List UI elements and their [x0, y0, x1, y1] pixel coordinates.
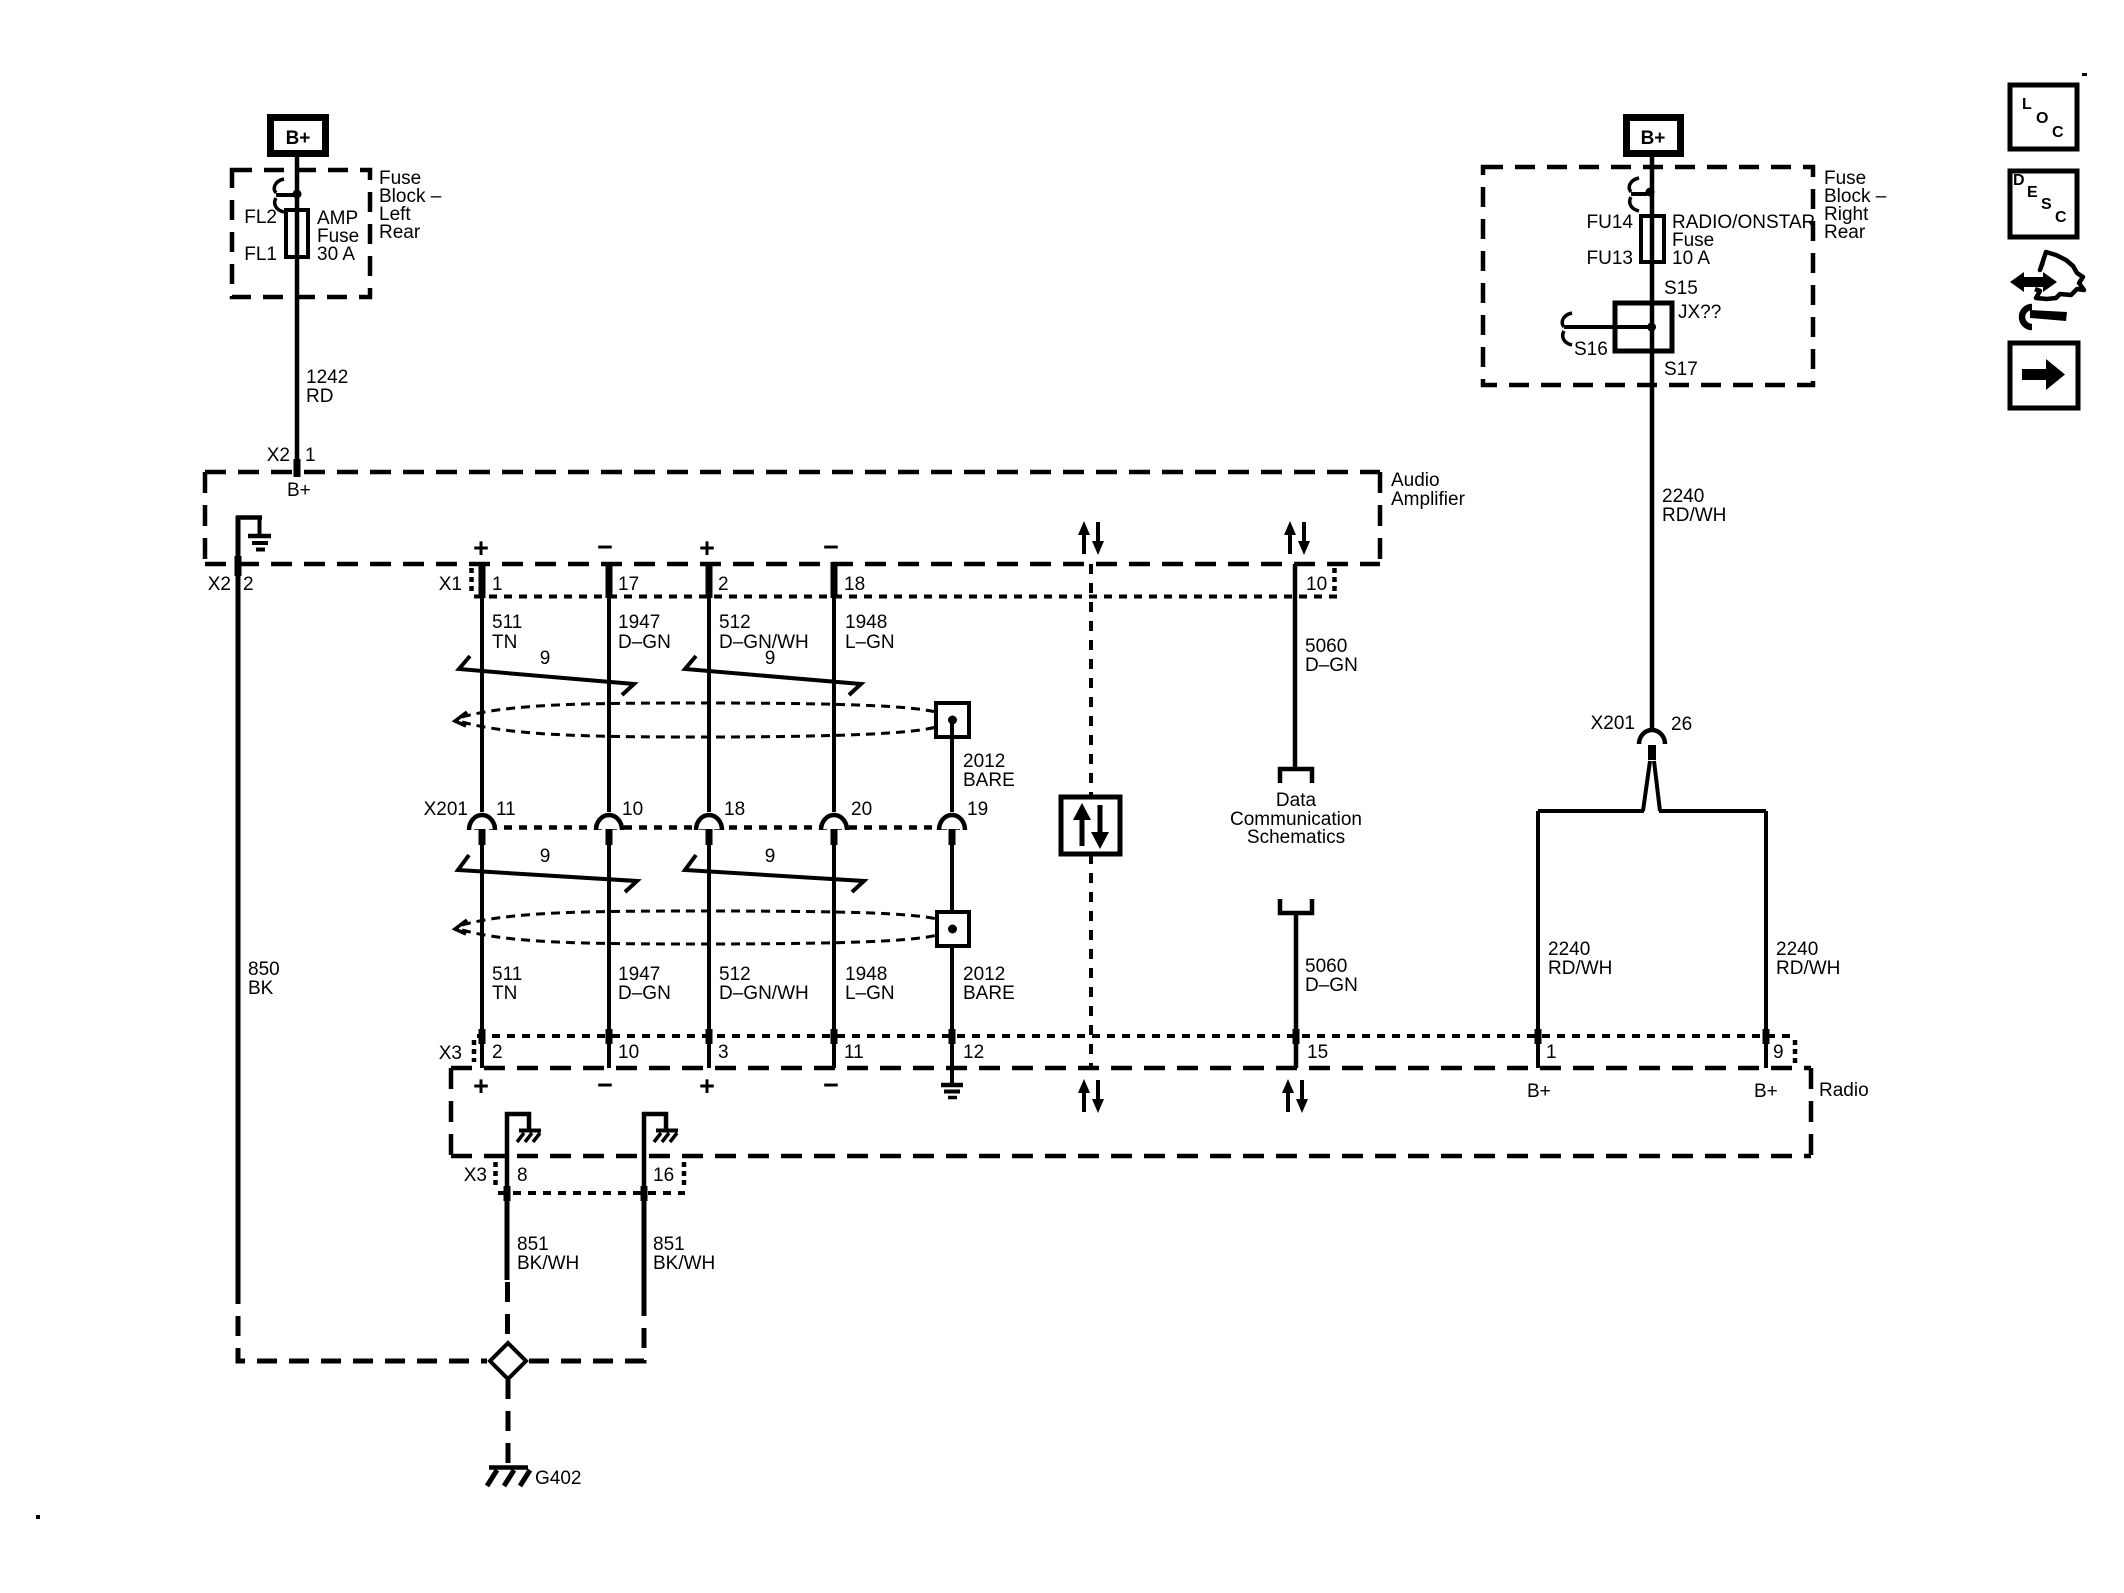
- svg-text:10: 10: [618, 1042, 639, 1063]
- shield ellipse (lower, drain 2012 BARE): [462, 911, 937, 944]
- svg-text:L: L: [2022, 96, 2032, 113]
- X3 pin numbers 2 10 3 11 12 15 1 9: [492, 1042, 1784, 1063]
- svg-text:Rear: Rear: [379, 222, 421, 243]
- svg-text:D–GN: D–GN: [618, 632, 671, 653]
- svg-text:BARE: BARE: [963, 770, 1015, 791]
- label 851 BK/WH (pin 16): [653, 1234, 715, 1274]
- svg-text:BK/WH: BK/WH: [653, 1253, 715, 1274]
- wire 511 TN (upper): [480, 564, 484, 812]
- power symbol B+ (left): [267, 114, 329, 157]
- label 2240 RD/WH: [1662, 486, 1726, 526]
- connector hook / junction in left fuse block: [274, 179, 301, 212]
- svg-text:FU13: FU13: [1587, 248, 1633, 269]
- svg-text:B+: B+: [287, 480, 311, 501]
- svg-text:30 A: 30 A: [317, 244, 355, 265]
- svg-text:9: 9: [1773, 1042, 1784, 1063]
- fuse block left rear (dashed box): [232, 170, 370, 297]
- wire splice to ground G402 (dashed): [506, 1379, 511, 1464]
- svg-text:512: 512: [719, 964, 751, 985]
- svg-text:1242: 1242: [306, 367, 348, 388]
- wire 5060 D-GN (to radio pin 15): [1294, 913, 1299, 1068]
- svg-text:2240: 2240: [1776, 939, 1818, 960]
- connector X1 ticks: [479, 562, 838, 598]
- svg-text:+: +: [699, 533, 715, 563]
- wire 5060 D-GN (from amplifier pin 10): [1293, 564, 1298, 767]
- svg-text:3: 3: [718, 1042, 729, 1063]
- wire 2012 BARE (upper drain): [950, 722, 954, 812]
- svg-text:2: 2: [243, 574, 254, 595]
- svg-text:11: 11: [844, 1042, 864, 1063]
- svg-text:2: 2: [718, 574, 729, 595]
- wire 1242 RD (B+ to audio amplifier): [295, 157, 300, 472]
- svg-text:1948: 1948: [845, 612, 887, 633]
- svg-text:1947: 1947: [618, 964, 660, 985]
- X3 pin 12 tick: [949, 1029, 956, 1044]
- twisted pair symbol (upper, wires 511/1947): [459, 656, 634, 695]
- wire 1948 L-GN (lower): [832, 845, 836, 1068]
- svg-text:X3: X3: [439, 1043, 462, 1064]
- label AMP Fuse 30 A: [317, 208, 359, 265]
- X3 pin 16 tick: [641, 1186, 648, 1201]
- ground symbol inside amplifier: [236, 517, 271, 550]
- label 2240 RD/WH (right branch): [1776, 939, 1840, 979]
- wire labels 511 TN / 1947 D-GN / 512 D-GN/WH / 1948 L-GN (lower): [492, 964, 895, 1004]
- svg-text:D–GN: D–GN: [1305, 975, 1358, 996]
- svg-text:8: 8: [517, 1165, 528, 1186]
- ground G402 chassis symbol: [487, 1468, 530, 1487]
- svg-text:17: 17: [618, 574, 639, 595]
- svg-text:12: 12: [963, 1042, 984, 1063]
- up/down arrows at radio (5060 pin 15): [1282, 1079, 1308, 1113]
- connector X2 pin 1 labels: [267, 445, 316, 466]
- stray mark top right: [2082, 73, 2087, 76]
- svg-text:L–GN: L–GN: [845, 983, 895, 1004]
- wire 511 TN (lower): [480, 845, 484, 1068]
- svg-text:D–GN: D–GN: [1305, 655, 1358, 676]
- svg-text:5060: 5060: [1305, 636, 1347, 657]
- svg-text:+: +: [473, 1071, 489, 1101]
- label 5060 D-GN (upper): [1305, 636, 1358, 676]
- icon forward arrow box: [2010, 343, 2078, 408]
- svg-text:20: 20: [851, 799, 872, 820]
- X2 pin 1 tick: [294, 459, 301, 477]
- svg-text:1: 1: [492, 574, 503, 595]
- svg-text:26: 26: [1671, 714, 1692, 735]
- svg-text:D: D: [2013, 172, 2025, 189]
- svg-text:511: 511: [492, 964, 522, 985]
- svg-text:9: 9: [540, 648, 551, 669]
- svg-text:D–GN: D–GN: [618, 983, 671, 1004]
- svg-text:FL2: FL2: [244, 207, 277, 228]
- label 851 BK/WH (pin 8): [517, 1234, 579, 1274]
- up/down arrows at amplifier (5060 pin 10): [1284, 521, 1310, 555]
- svg-text:Amplifier: Amplifier: [1391, 489, 1466, 510]
- speaker input polarity labels (radio): [473, 1070, 839, 1101]
- connector X3 (dotted row at radio): [439, 1036, 1795, 1064]
- svg-text:BK: BK: [248, 978, 274, 999]
- svg-text:X2: X2: [208, 574, 231, 595]
- label RADIO/ONSTAR Fuse 10 A: [1672, 212, 1815, 269]
- X3 pin numbers 8 16: [517, 1165, 674, 1186]
- svg-text:2: 2: [492, 1042, 503, 1063]
- fuse FU14/FU13 RADIO/ONSTAR Fuse 10 A: [1641, 216, 1664, 262]
- fuse block right rear (dashed box): [1483, 167, 1813, 385]
- wire 512 D-GN/WH (upper): [707, 564, 711, 812]
- svg-text:+: +: [473, 533, 489, 563]
- svg-text:S15: S15: [1664, 278, 1698, 299]
- svg-text:TN: TN: [492, 983, 517, 1004]
- svg-text:Audio: Audio: [1391, 470, 1440, 491]
- svg-text:B+: B+: [1527, 1081, 1551, 1102]
- svg-text:D–GN/WH: D–GN/WH: [719, 983, 809, 1004]
- icon LOC box: [2010, 85, 2077, 149]
- X1 pin numbers 1 17 2 18 10: [492, 574, 1327, 595]
- svg-text:G402: G402: [535, 1468, 581, 1489]
- junction block JX??: [1615, 303, 1672, 351]
- twisted pair symbol (lower, wires 512/1948): [685, 855, 864, 892]
- X201 connector arcs: [469, 814, 965, 829]
- serial data wire (dashed, amplifier pin to radio): [1089, 564, 1093, 1070]
- X3 pin 1 tick: [1535, 1029, 1542, 1044]
- wire 1947 D-GN (upper): [607, 564, 611, 812]
- label 5060 D-GN (lower): [1305, 956, 1358, 996]
- wire 2012 BARE (lower drain to radio): [950, 946, 954, 1083]
- twisted pair symbol (upper, wires 512/1948): [685, 656, 861, 695]
- wire S16 branch: [1564, 325, 1648, 329]
- wire 2240 RD/WH (B+ through fuse block to X201): [1650, 157, 1655, 730]
- shield ellipse (upper, drain 2012 BARE): [462, 703, 936, 737]
- svg-text:FU14: FU14: [1587, 212, 1634, 233]
- shield termination box (upper): [936, 703, 969, 737]
- svg-text:B+: B+: [286, 128, 311, 149]
- svg-text:E: E: [2027, 184, 2038, 201]
- node B+ labels at radio pins 1 and 9: [1527, 1081, 1778, 1102]
- svg-text:C: C: [2055, 209, 2067, 226]
- svg-text:B+: B+: [1641, 128, 1666, 149]
- wire 2012 BARE (between X201 and lower shield box): [950, 845, 954, 912]
- svg-text:RD/WH: RD/WH: [1548, 958, 1612, 979]
- X201 pin ticks: [479, 829, 956, 845]
- svg-text:11: 11: [496, 799, 516, 820]
- speaker output polarity labels (amplifier): [473, 532, 839, 563]
- svg-text:X201: X201: [1591, 713, 1635, 734]
- stray mark bottom left: [36, 1515, 40, 1519]
- svg-text:15: 15: [1307, 1042, 1328, 1063]
- svg-text:RD/WH: RD/WH: [1776, 958, 1840, 979]
- wire 1947 D-GN (lower): [607, 845, 611, 1068]
- svg-text:S16: S16: [1574, 339, 1608, 360]
- svg-text:511: 511: [492, 612, 522, 633]
- svg-text:1: 1: [305, 445, 316, 466]
- svg-text:1: 1: [1546, 1042, 1557, 1063]
- connector X1 (dotted row): [439, 568, 1344, 597]
- wire labels 511 TN / 1947 D-GN / 512 D-GN/WH / 1948 L-GN (upper): [492, 612, 895, 653]
- svg-text:−: −: [597, 532, 613, 562]
- svg-text:TN: TN: [492, 632, 517, 653]
- X3 pin 9 tick: [1763, 1029, 1770, 1044]
- up/down arrows at amplifier (data wire): [1078, 521, 1104, 555]
- svg-text:BK/WH: BK/WH: [517, 1253, 579, 1274]
- X3 pin 15 tick: [1293, 1029, 1300, 1044]
- label Fuse Block - Right Rear: [1824, 168, 1887, 243]
- radio (dashed box): [451, 1068, 1811, 1156]
- audio amplifier (dashed box): [205, 472, 1380, 564]
- wire 850 BK (dashed run to splice): [238, 1284, 487, 1361]
- label Audio Amplifier: [1391, 470, 1466, 510]
- label Fuse Block - Left Rear: [379, 168, 442, 243]
- svg-text:−: −: [823, 532, 839, 562]
- off-page bracket (lower, from data communication schematics): [1280, 899, 1312, 913]
- connector X3 (second dotted row, pins 8/16): [464, 1162, 685, 1193]
- svg-text:10 A: 10 A: [1672, 248, 1710, 269]
- svg-text:FL1: FL1: [244, 244, 277, 265]
- svg-text:2240: 2240: [1548, 939, 1590, 960]
- connector X3 ticks (speaker wires): [479, 1029, 838, 1044]
- X201 pin numbers 11 10 18 20 19: [496, 799, 988, 820]
- label 2012 BARE (upper): [963, 751, 1015, 791]
- svg-text:16: 16: [653, 1165, 674, 1186]
- wire 512 D-GN/WH (lower): [707, 845, 711, 1068]
- svg-text:9: 9: [765, 846, 776, 867]
- icon electrical diagnostics (arrow + wrench): [2010, 252, 2084, 327]
- svg-text:512: 512: [719, 612, 751, 633]
- chassis ground symbol at radio pin 8: [507, 1114, 541, 1196]
- wire 851 BK/WH (pin 16, solid part): [642, 1196, 647, 1296]
- svg-text:18: 18: [724, 799, 745, 820]
- power symbol B+ (right): [1623, 114, 1684, 157]
- X3 pin 8 tick: [504, 1186, 511, 1201]
- splice (diamond): [490, 1343, 526, 1379]
- icon DESC box: [2010, 171, 2077, 237]
- connector X201 dotted row: [424, 799, 960, 828]
- svg-text:19: 19: [967, 799, 988, 820]
- chassis ground symbol at radio pin 16: [644, 1114, 678, 1196]
- svg-text:851: 851: [653, 1234, 685, 1255]
- svg-text:C: C: [2052, 124, 2064, 141]
- svg-text:−: −: [597, 1070, 613, 1100]
- fuse FL2/FL1 AMP Fuse 30 A: [286, 210, 308, 257]
- connector hook on S16 branch: [1562, 313, 1572, 345]
- label 2240 RD/WH (left branch): [1548, 939, 1612, 979]
- svg-text:1947: 1947: [618, 612, 660, 633]
- X2 pin 2 tick: [235, 556, 242, 576]
- bidirectional data arrows box: [1061, 797, 1120, 854]
- svg-text:9: 9: [765, 648, 776, 669]
- svg-text:Data: Data: [1276, 790, 1317, 811]
- svg-text:5060: 5060: [1305, 956, 1347, 977]
- svg-text:9: 9: [540, 846, 551, 867]
- svg-text:10: 10: [622, 799, 643, 820]
- wire 851 BK/WH (pin 8, solid part): [505, 1196, 510, 1280]
- connector hook / junction in right fuse block: [1629, 178, 1654, 211]
- twisted pair symbol (lower, wires 511/1947): [458, 855, 637, 892]
- svg-text:B+: B+: [1754, 1081, 1778, 1102]
- wire 851 BK/WH (pin 16, dashed run to splice): [528, 1296, 644, 1361]
- svg-text:851: 851: [517, 1234, 549, 1255]
- svg-text:X1: X1: [439, 574, 462, 595]
- svg-text:X201: X201: [424, 799, 468, 820]
- svg-text:X3: X3: [464, 1165, 487, 1186]
- svg-text:1948: 1948: [845, 964, 887, 985]
- svg-text:O: O: [2036, 110, 2048, 127]
- svg-text:−: −: [823, 1070, 839, 1100]
- wire 1948 L-GN (upper): [832, 564, 836, 812]
- svg-text:2012: 2012: [963, 964, 1005, 985]
- label 850 BK: [248, 959, 280, 999]
- ground symbol at radio pin 12: [941, 1085, 963, 1098]
- wire 2240 RD/WH split (Y to radio pins 1 and 9): [1538, 761, 1766, 1068]
- svg-text:2240: 2240: [1662, 486, 1704, 507]
- svg-text:Rear: Rear: [1824, 222, 1866, 243]
- svg-text:JX??: JX??: [1678, 302, 1721, 323]
- wire 850 BK (solid part): [236, 516, 241, 1284]
- connector X201 pin 26: [1591, 713, 1693, 760]
- label Data Communication Schematics: [1230, 790, 1362, 848]
- shield ellipse left tip arrow (upper): [455, 712, 467, 726]
- svg-text:S17: S17: [1664, 359, 1698, 380]
- wire 851 BK/WH (pin 8, dashed to splice): [505, 1282, 510, 1341]
- svg-text:BARE: BARE: [963, 983, 1015, 1004]
- svg-text:2012: 2012: [963, 751, 1005, 772]
- junction dot in JX block: [1647, 323, 1656, 332]
- off-page bracket (upper, to data communication schematics): [1280, 769, 1312, 783]
- svg-text:S: S: [2041, 196, 2052, 213]
- svg-text:10: 10: [1306, 574, 1327, 595]
- up/down arrows at radio (data wire): [1078, 1079, 1104, 1113]
- label 2012 BARE (lower): [963, 964, 1015, 1004]
- svg-text:X2: X2: [267, 445, 290, 466]
- svg-text:Radio: Radio: [1819, 1080, 1869, 1101]
- svg-text:L–GN: L–GN: [845, 632, 895, 653]
- svg-text:+: +: [699, 1071, 715, 1101]
- svg-text:18: 18: [844, 574, 865, 595]
- connector X2 pin 2 labels: [208, 574, 254, 595]
- shield termination box (lower): [937, 912, 969, 946]
- shield ellipse left tip arrow (lower): [455, 920, 467, 934]
- svg-text:Schematics: Schematics: [1247, 827, 1345, 848]
- label 1242 RD: [306, 367, 348, 407]
- svg-text:RD: RD: [306, 386, 333, 407]
- svg-text:RD/WH: RD/WH: [1662, 505, 1726, 526]
- svg-text:850: 850: [248, 959, 280, 980]
